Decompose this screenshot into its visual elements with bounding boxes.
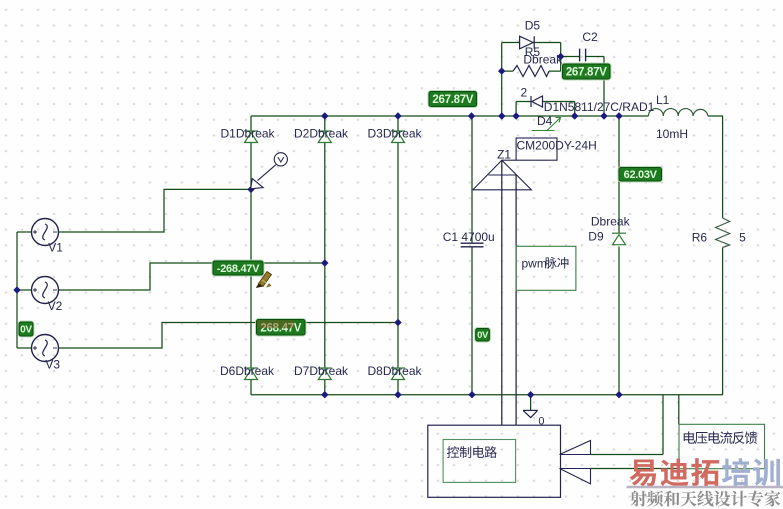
node phase C (394, 319, 401, 326)
wire V1 left lead (17, 231, 32, 233)
voltage probe marker (251, 153, 288, 189)
node phase B (321, 259, 328, 266)
node top rail / D2 (321, 112, 328, 119)
svg-text:C2: C2 (582, 30, 598, 44)
svg-text:D2Dbreak: D2Dbreak (294, 127, 349, 141)
node top rail / snubber-gate (498, 112, 505, 119)
wire V3 left lead (17, 347, 32, 349)
node bottom rail / D8 (394, 391, 401, 398)
wire D1-D6 column (250, 116, 252, 395)
svg-text:R6: R6 (692, 231, 708, 245)
wire top DC rail (251, 115, 723, 117)
svg-text:V2: V2 (48, 299, 63, 313)
bias voltage badge -268.47V (212, 260, 265, 277)
capacitor C2 (580, 49, 586, 62)
node phase A (247, 186, 254, 193)
brown tint on 268.47V badge (258, 320, 295, 328)
wire snubber right (560, 43, 562, 72)
inductor L1 (648, 109, 708, 116)
wire C2 leads (561, 56, 604, 58)
voltage current feedback box (679, 424, 765, 468)
wire D2-D7 column (324, 116, 326, 395)
wire lower buffer to feedback box (591, 468, 679, 470)
node snubber right C2 tap (557, 53, 564, 60)
svg-text:Dbreak: Dbreak (591, 215, 631, 229)
wire D4 row (516, 101, 575, 103)
bias voltage badge 62.03V (618, 166, 664, 183)
svg-text:-268.47V: -268.47V (217, 263, 260, 275)
svg-text:0V: 0V (20, 325, 32, 336)
svg-text:2: 2 (521, 86, 528, 100)
svg-text:L1: L1 (656, 93, 670, 107)
watermark 射频和天线设计专家 (630, 490, 780, 506)
node bottom rail / ground (527, 391, 534, 398)
diode D6 (244, 368, 258, 380)
svg-text:0V: 0V (477, 330, 489, 341)
svg-text:D8Dbreak: D8Dbreak (368, 364, 423, 378)
wire R5 leads (502, 70, 561, 72)
wire V2 to node B (59, 263, 325, 290)
svg-text:pwm: pwm (522, 257, 547, 271)
svg-text:CM200DY-24H: CM200DY-24H (517, 139, 597, 153)
node top rail / D4 anode (512, 112, 519, 119)
node top rail / D9 (615, 112, 622, 119)
diode D3 (391, 131, 405, 143)
diode D1 (244, 131, 258, 143)
wire D3-D8 column (397, 116, 399, 395)
ground symbol 0 (523, 410, 538, 417)
diode D7 (318, 368, 332, 380)
svg-text:D7Dbreak: D7Dbreak (294, 364, 349, 378)
svg-text:D4: D4 (537, 114, 553, 128)
bias voltage badge 267.87V (rail) (428, 90, 479, 108)
svg-text:Z1: Z1 (497, 148, 511, 162)
wire ground stem (530, 395, 532, 411)
svg-text:D1Dbreak: D1Dbreak (221, 127, 276, 141)
control circuit box U-ctrl (428, 425, 561, 497)
svg-text:D6Dbreak: D6Dbreak (220, 364, 275, 378)
bias voltage badge 0V (bus) (18, 321, 35, 338)
buffer amplifier lower (560, 469, 591, 484)
node top rail / C1 (468, 112, 475, 119)
wire V2 left lead (17, 289, 32, 291)
watermark underline (627, 486, 783, 489)
current marker on D4 (532, 118, 561, 131)
bias voltage badge 0V (C1) (474, 327, 491, 343)
watermark 易迪拓培训 (629, 458, 779, 486)
capacitor C1 (461, 243, 484, 247)
node top rail / D3 (394, 112, 401, 119)
probe pencil icon (256, 272, 272, 289)
bias voltage badge 268.47V (255, 318, 307, 337)
resistor R5 (513, 66, 549, 77)
svg-text:10mH: 10mH (656, 127, 688, 141)
AC source V3 (32, 335, 59, 362)
svg-text:D3Dbreak: D3Dbreak (368, 127, 423, 141)
bias voltage badge 267.87V (C2) (561, 63, 612, 81)
wire bottom DC rail (251, 394, 723, 396)
pwm pulse box (516, 246, 576, 290)
wire Z1 emitter to control box (515, 175, 517, 425)
svg-text:V3: V3 (45, 358, 60, 372)
wire C2 drop (603, 57, 605, 117)
node bottom rail / D9 (615, 391, 622, 398)
svg-text:62.03V: 62.03V (624, 169, 658, 181)
control circuit inner box (443, 440, 515, 483)
label 电压电流反馈 (684, 431, 758, 444)
label 脉冲 (545, 257, 569, 269)
AC source V2 (32, 277, 59, 304)
wire D5 row (502, 42, 561, 44)
wire left bus (16, 232, 18, 348)
wire snubber left (501, 43, 503, 117)
wire Z1 gate to control box (501, 160, 503, 425)
label 控制电路 (447, 446, 497, 458)
diode D4 (531, 96, 543, 107)
wire R6 column (722, 116, 724, 395)
node neutral bus (13, 286, 20, 293)
svg-text:C1 4700u: C1 4700u (443, 230, 495, 244)
svg-text:D1N5811/27C/RAD1: D1N5811/27C/RAD1 (544, 100, 655, 114)
diode D8 (391, 368, 405, 380)
svg-text:D9: D9 (588, 230, 604, 244)
svg-text:267.87V: 267.87V (432, 94, 473, 106)
wire C1 column (471, 116, 473, 395)
wire V3 to node C (59, 323, 399, 349)
wire V1 to node A (59, 189, 252, 232)
node top rail / D4 cathode (571, 112, 578, 119)
diode D2 (318, 131, 332, 143)
diode D9 (612, 233, 626, 245)
resistor R6 (716, 218, 730, 248)
IGBT Z1 symbol (473, 138, 557, 190)
node snubber left (498, 67, 505, 74)
node bottom rail / C1 (468, 391, 475, 398)
buffer amplifier upper (560, 441, 591, 455)
node top rail / C2 (600, 112, 607, 119)
wire rail to feedback box (678, 395, 680, 425)
svg-text:V1: V1 (48, 241, 63, 255)
wire rail to upper buffer (591, 395, 664, 455)
svg-text:5: 5 (739, 231, 746, 245)
wire D9 column (618, 116, 620, 395)
svg-text:Dbreak: Dbreak (523, 53, 563, 67)
svg-text:267.87V: 267.87V (566, 67, 607, 79)
wire D4 risers (516, 102, 575, 117)
diode D5 (520, 36, 535, 49)
AC source V1 (32, 219, 59, 246)
node bottom rail / D7 (321, 391, 328, 398)
svg-text:D5: D5 (525, 19, 541, 33)
